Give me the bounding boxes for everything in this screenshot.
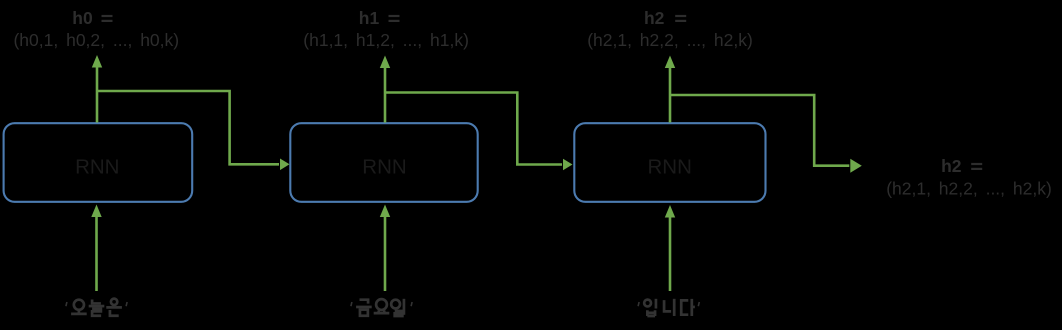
svg-text:(h1,1, h1,2, ..., h1,k): (h1,1, h1,2, ..., h1,k) xyxy=(303,30,469,50)
svg-text:(h2,1, h2,2, ..., h2,k): (h2,1, h2,2, ..., h2,k) xyxy=(587,30,753,50)
svg-text:h1: h1 xyxy=(359,8,380,28)
svg-text:h2: h2 xyxy=(941,156,962,176)
svg-text:(h0,1, h0,2, ..., h0,k): (h0,1, h0,2, ..., h0,k) xyxy=(13,30,179,50)
svg-text:h0: h0 xyxy=(72,8,93,28)
svg-text:(h2,1, h2,2, ..., h2,k): (h2,1, h2,2, ..., h2,k) xyxy=(886,178,1052,198)
svg-text:h2: h2 xyxy=(644,8,665,28)
svg-text:RNN: RNN xyxy=(362,155,406,178)
svg-text:RNN: RNN xyxy=(647,155,691,178)
svg-text:RNN: RNN xyxy=(75,155,119,178)
